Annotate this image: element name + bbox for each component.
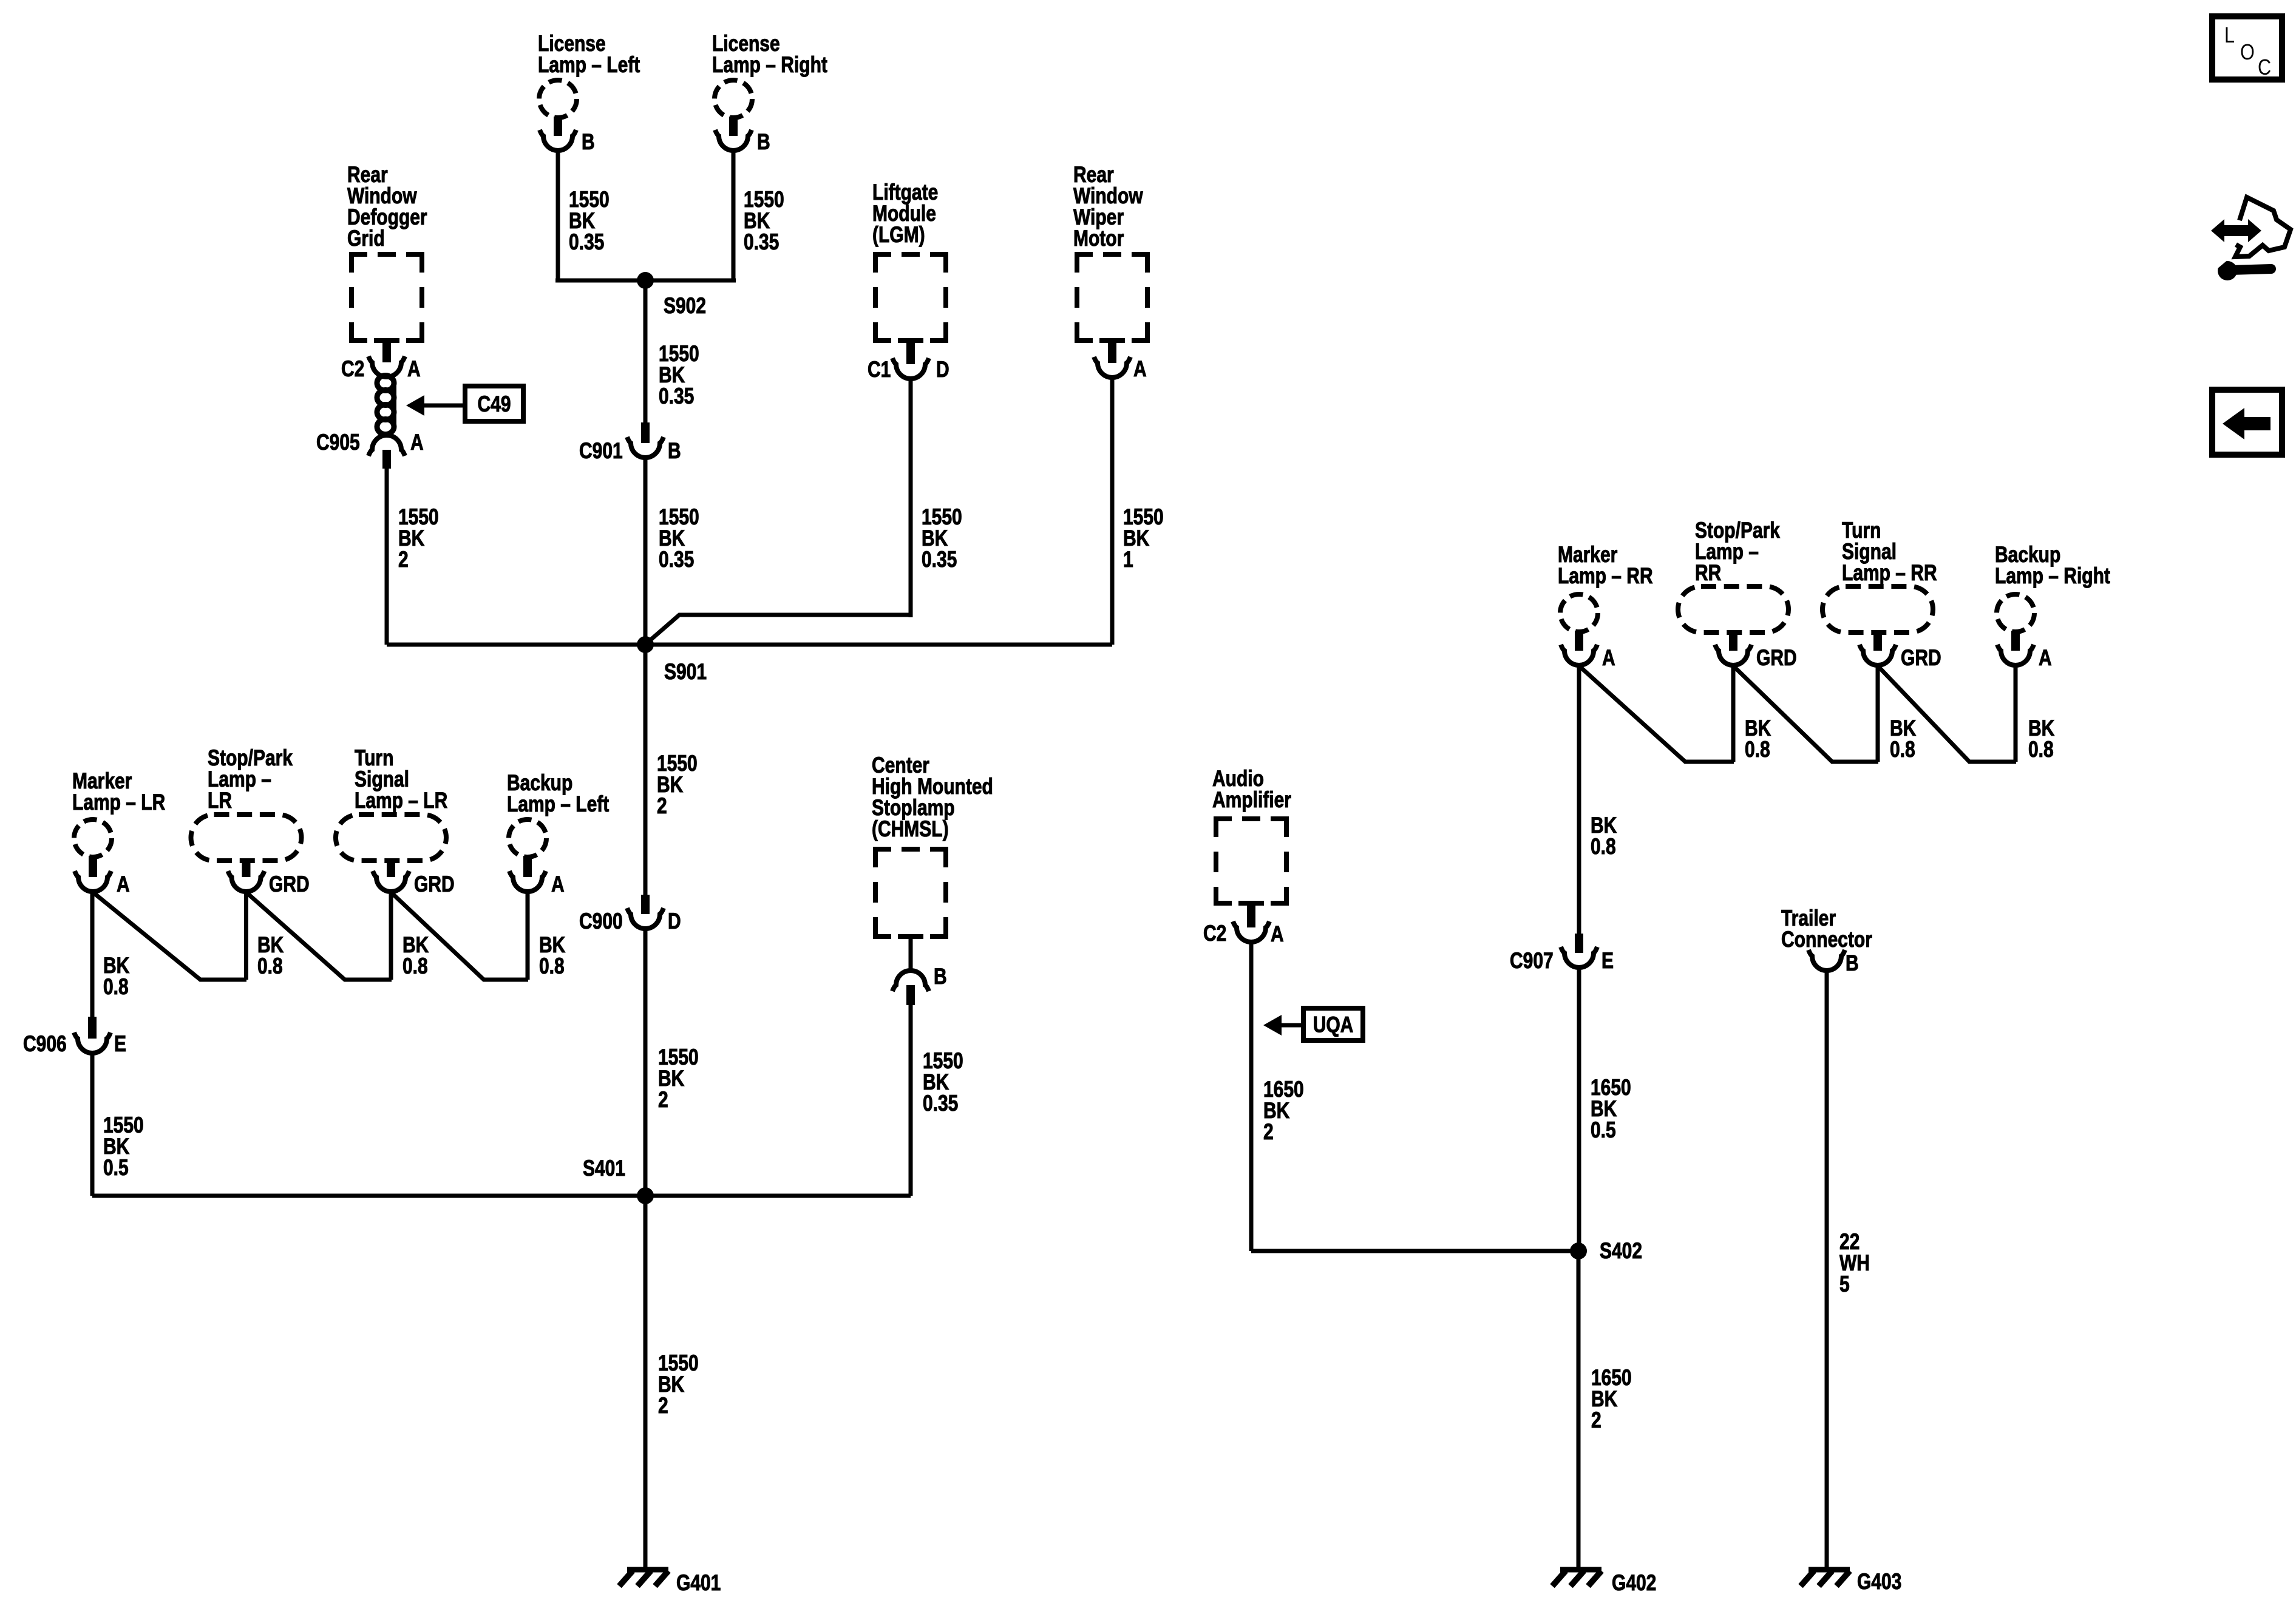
svg-text:A: A — [1602, 645, 1615, 671]
svg-text:GRD: GRD — [1756, 645, 1797, 671]
defogger grid element coil — [377, 376, 394, 436]
svg-text:0.8: 0.8 — [539, 954, 565, 979]
wire S402 to G402 — [1577, 1251, 1581, 1570]
component Stop/Park Lamp - LR label — [208, 745, 293, 813]
wire S901 horizontal bus — [387, 643, 1112, 647]
wire stop park LR diagonal chain — [246, 892, 392, 980]
wire turn LR diagonal chain — [391, 892, 528, 980]
connector C907 pin E — [1510, 934, 1614, 974]
connector pin A of wiper motor — [1094, 342, 1147, 382]
component Marker Lamp - RR label — [1558, 542, 1653, 589]
svg-text:GRD: GRD — [1901, 645, 1941, 671]
svg-text:0.8: 0.8 — [2028, 737, 2054, 762]
wire S902 to C901 — [644, 280, 648, 422]
svg-text:B: B — [934, 964, 947, 989]
connector C906 pin E — [23, 1017, 126, 1057]
connector pin GRD of stop park LR — [228, 860, 310, 897]
svg-text:UQA: UQA — [1313, 1012, 1354, 1037]
wire label 1550 BK 0.5 — [103, 1113, 144, 1181]
svg-text:0.8: 0.8 — [402, 954, 428, 979]
svg-text:2: 2 — [1591, 1408, 1601, 1433]
svg-text:GRD: GRD — [269, 872, 310, 897]
wire label 1550 BK 2 — [658, 1045, 699, 1113]
wire backup left vertical — [526, 892, 530, 980]
svg-text:Lamp – LR: Lamp – LR — [72, 790, 165, 815]
component Rear Window Wiper Motor label — [1073, 162, 1143, 251]
svg-text:0.8: 0.8 — [257, 954, 283, 979]
svg-text:0.5: 0.5 — [1591, 1117, 1616, 1143]
connector C2 pin A of defogger — [341, 342, 421, 382]
svg-text:Lamp – Left: Lamp – Left — [538, 52, 640, 78]
svg-text:S901: S901 — [664, 659, 707, 685]
svg-text:E: E — [114, 1031, 126, 1057]
connector pin GRD of stop park RR — [1715, 632, 1797, 671]
svg-text:0.35: 0.35 — [569, 229, 604, 255]
wire LGM down — [909, 379, 913, 617]
wire backup right vertical — [2014, 665, 2018, 762]
svg-text:C905: C905 — [316, 430, 360, 455]
reference arrow to C49 — [406, 395, 466, 416]
svg-text:C: C — [2258, 56, 2271, 80]
liftgate module box — [873, 252, 948, 343]
connector pin A of marker LR — [75, 856, 130, 897]
wire marker RR diagonal chain — [1579, 666, 1734, 762]
connector pin B of license lamp right — [715, 117, 770, 155]
wire label 1550 BK 0.35 — [659, 341, 699, 409]
svg-text:C907: C907 — [1510, 948, 1554, 974]
wire turn RR diagonal chain — [1878, 666, 2016, 762]
wire C907 to S402 — [1577, 968, 1581, 1251]
connector pin B of license lamp left — [540, 117, 595, 155]
svg-text:5: 5 — [1839, 1272, 1850, 1297]
svg-text:B: B — [668, 438, 681, 464]
wire turn LR vertical — [389, 892, 393, 980]
wire S401 horizontal bus — [92, 1194, 911, 1198]
component Turn Signal Lamp - RR label — [1842, 518, 1937, 586]
component Rear Window Defogger Grid label — [347, 162, 427, 251]
ground G403 — [1801, 1569, 1901, 1595]
wire trailer connector to G403 — [1825, 970, 1829, 1570]
wire CHMSL to S401 horizontal — [909, 1005, 913, 1196]
splice S402 — [1570, 1238, 1642, 1264]
wire label 1550 BK 2 — [398, 504, 439, 572]
icon LOC box — [2212, 16, 2282, 80]
wire label 1550 BK 0.35 — [744, 187, 784, 255]
svg-text:0.8: 0.8 — [103, 974, 129, 1000]
svg-text:L: L — [2224, 24, 2235, 48]
wire LGM branch to S901 — [647, 615, 911, 643]
wire label 1550 BK 0.35 — [659, 504, 699, 572]
svg-text:1: 1 — [1123, 547, 1133, 572]
wire label BK 0.8 — [2028, 716, 2055, 762]
svg-text:A: A — [1271, 921, 1284, 947]
wire turn RR vertical — [1876, 665, 1880, 762]
svg-text:A: A — [2039, 645, 2052, 671]
wire C900 to S401 — [644, 929, 648, 1196]
splice S901 — [637, 636, 707, 685]
ground G402 — [1552, 1570, 1656, 1596]
wire CHMSL box to connector — [909, 939, 913, 972]
reference box C49 — [465, 386, 523, 421]
rear window wiper motor box — [1075, 252, 1150, 343]
svg-text:C1: C1 — [868, 357, 891, 382]
svg-text:Lamp – RR: Lamp – RR — [1842, 560, 1937, 586]
svg-text:0.35: 0.35 — [923, 1091, 958, 1116]
svg-text:A: A — [1133, 356, 1147, 382]
svg-text:Lamp – Right: Lamp – Right — [712, 52, 827, 78]
svg-text:Lamp – Left: Lamp – Left — [507, 792, 609, 817]
wire label 1650 BK 0.5 — [1591, 1075, 1631, 1143]
turn signal lamp LR oval — [336, 815, 446, 861]
wire label BK 0.8 — [103, 953, 130, 1000]
svg-text:A: A — [407, 356, 421, 382]
component License Lamp - Left label — [538, 31, 640, 78]
component Trailer Connector label — [1781, 906, 1872, 952]
component Backup Lamp - Right label — [1995, 542, 2110, 589]
svg-text:2: 2 — [658, 1393, 668, 1419]
wire marker LR diagonal chain — [93, 892, 246, 980]
svg-text:2: 2 — [398, 547, 409, 572]
svg-text:B: B — [1846, 951, 1859, 976]
connector C1 pin D of LGM — [868, 342, 949, 382]
wire marker RR to C907 — [1577, 665, 1581, 934]
svg-text:D: D — [668, 909, 681, 934]
svg-text:D: D — [936, 357, 949, 382]
stop park lamp RR oval — [1678, 586, 1788, 632]
wire wiper motor to S901 horizontal — [1110, 378, 1115, 645]
svg-text:0.35: 0.35 — [659, 384, 694, 409]
wire label BK 0.8 — [1745, 716, 1771, 762]
reference box UQA — [1303, 1008, 1363, 1040]
component Center High Mounted Stoplamp label — [872, 753, 993, 842]
wire marker LR to C906 — [90, 892, 95, 1017]
wire label BK 0.8 — [1591, 813, 1617, 859]
wire label 22 WH 5 — [1839, 1229, 1870, 1297]
svg-text:0.35: 0.35 — [659, 547, 694, 572]
svg-text:G401: G401 — [676, 1570, 721, 1596]
connector pin A of backup right — [1997, 631, 2052, 671]
wire label 1550 BK 1 — [1123, 504, 1164, 572]
wire license left to S902 — [556, 151, 560, 280]
svg-text:2: 2 — [1263, 1119, 1274, 1145]
connector pin GRD of turn LR — [373, 860, 455, 897]
connector pin A of marker RR — [1561, 631, 1615, 671]
wire label 1550 BK 2 — [657, 751, 698, 819]
svg-text:O: O — [2240, 41, 2255, 65]
license lamp left bulb — [539, 80, 577, 118]
marker lamp RR bulb — [1560, 594, 1598, 632]
connector pin B of trailer connector — [1809, 950, 1859, 976]
component License Lamp - Right label — [712, 31, 827, 78]
backup lamp left bulb — [509, 819, 546, 857]
connector pin A of backup left — [509, 856, 565, 897]
wire S401 to G401 — [644, 1196, 648, 1570]
CHMSL box — [873, 847, 948, 939]
wire license right to S902 — [732, 151, 736, 280]
wire amplifier horizontal to S402 — [1251, 1249, 1579, 1253]
wire stop park RR diagonal chain — [1733, 666, 1878, 762]
icon repair fender outline — [2235, 197, 2291, 257]
wire label 1550 BK 0.35 — [569, 187, 610, 255]
wire C905 to S901 horizontal — [385, 469, 389, 645]
svg-text:(CHMSL): (CHMSL) — [872, 816, 949, 842]
component Backup Lamp - Left label — [507, 770, 609, 817]
wire amplifier to S402 — [1249, 942, 1254, 1251]
component Marker Lamp - LR label — [72, 768, 165, 815]
svg-text:Lamp – Right: Lamp – Right — [1995, 563, 2110, 589]
svg-text:0.8: 0.8 — [1890, 737, 1915, 762]
wire label 1650 BK 2 — [1591, 1365, 1632, 1433]
wire stop park RR vertical — [1731, 665, 1736, 762]
reference arrow to UQA — [1263, 1015, 1305, 1036]
svg-text:A: A — [551, 872, 565, 897]
svg-text:G403: G403 — [1857, 1569, 1901, 1595]
backup lamp right bulb — [1997, 594, 2034, 632]
component Liftgate Module LGM label — [872, 180, 938, 248]
connector C901 pin B — [579, 422, 681, 464]
rear window defogger grid box — [349, 252, 424, 343]
wire label BK 0.8 — [402, 932, 429, 979]
svg-text:E: E — [1601, 948, 1614, 974]
svg-text:C2: C2 — [1203, 921, 1226, 946]
connector pin GRD of turn RR — [1860, 632, 1941, 671]
svg-text:(LGM): (LGM) — [872, 222, 925, 248]
svg-text:0.8: 0.8 — [1745, 737, 1770, 762]
svg-text:GRD: GRD — [414, 872, 455, 897]
license lamp right bulb — [715, 80, 752, 118]
stop park lamp LR oval — [191, 815, 302, 861]
marker lamp LR bulb — [74, 819, 112, 857]
svg-text:G402: G402 — [1612, 1570, 1656, 1596]
connector C2 pin A of amplifier — [1203, 904, 1284, 947]
svg-text:C49: C49 — [477, 392, 511, 417]
svg-text:C2: C2 — [341, 356, 364, 382]
splice S902 — [637, 272, 706, 319]
connector pin B of CHMSL — [892, 964, 947, 1005]
svg-text:Grid: Grid — [347, 226, 385, 251]
svg-text:Amplifier: Amplifier — [1212, 787, 1291, 813]
svg-text:S902: S902 — [664, 293, 706, 319]
wire S901 to C900 — [644, 645, 648, 895]
svg-text:Motor: Motor — [1073, 226, 1124, 251]
svg-text:B: B — [757, 129, 770, 155]
svg-text:Connector: Connector — [1781, 927, 1872, 952]
wire stop park LR vertical — [244, 892, 248, 980]
audio amplifier box — [1214, 816, 1289, 906]
component Turn Signal Lamp - LR label — [355, 745, 447, 813]
wire label 1550 BK 0.35 — [923, 1048, 963, 1116]
svg-text:2: 2 — [658, 1087, 668, 1113]
wire C906 to S401 horizontal — [90, 1052, 95, 1196]
wire S902 horizontal — [555, 279, 736, 283]
ground G401 — [619, 1570, 721, 1596]
svg-text:2: 2 — [657, 793, 667, 819]
svg-text:Lamp – RR: Lamp – RR — [1558, 563, 1653, 589]
icon back arrow box — [2212, 390, 2282, 455]
splice S401 — [583, 1156, 654, 1204]
svg-text:0.8: 0.8 — [1591, 834, 1616, 859]
icon double arrow — [2211, 219, 2261, 242]
wire label BK 0.8 — [539, 932, 566, 979]
svg-text:0.35: 0.35 — [744, 229, 779, 255]
svg-text:A: A — [410, 430, 424, 455]
component Stop/Park Lamp - RR label — [1695, 518, 1780, 586]
component Audio Amplifier label — [1212, 766, 1291, 813]
svg-text:B: B — [582, 129, 595, 155]
svg-text:C901: C901 — [579, 438, 623, 464]
svg-text:C900: C900 — [579, 909, 623, 934]
svg-text:S401: S401 — [583, 1156, 625, 1181]
svg-text:A: A — [117, 872, 130, 897]
svg-text:Lamp – LR: Lamp – LR — [355, 788, 447, 813]
wire C901 to S901 — [644, 458, 648, 645]
wire label 1550 BK 2 — [658, 1351, 699, 1419]
svg-text:0.5: 0.5 — [103, 1155, 129, 1181]
wire label BK 0.8 — [257, 932, 284, 979]
wire label 1650 BK 2 — [1263, 1077, 1304, 1145]
svg-text:LR: LR — [208, 788, 232, 813]
connector C905 pin A — [316, 430, 424, 469]
svg-text:RR: RR — [1695, 560, 1721, 586]
svg-text:S402: S402 — [1600, 1238, 1642, 1264]
turn signal lamp RR oval — [1822, 586, 1933, 632]
svg-text:0.35: 0.35 — [922, 547, 957, 572]
svg-text:C906: C906 — [23, 1031, 67, 1057]
wire label 1550 BK 0.35 — [922, 504, 962, 572]
wire label BK 0.8 — [1890, 716, 1917, 762]
connector C900 pin D — [579, 895, 681, 934]
icon wrench — [2212, 253, 2271, 280]
